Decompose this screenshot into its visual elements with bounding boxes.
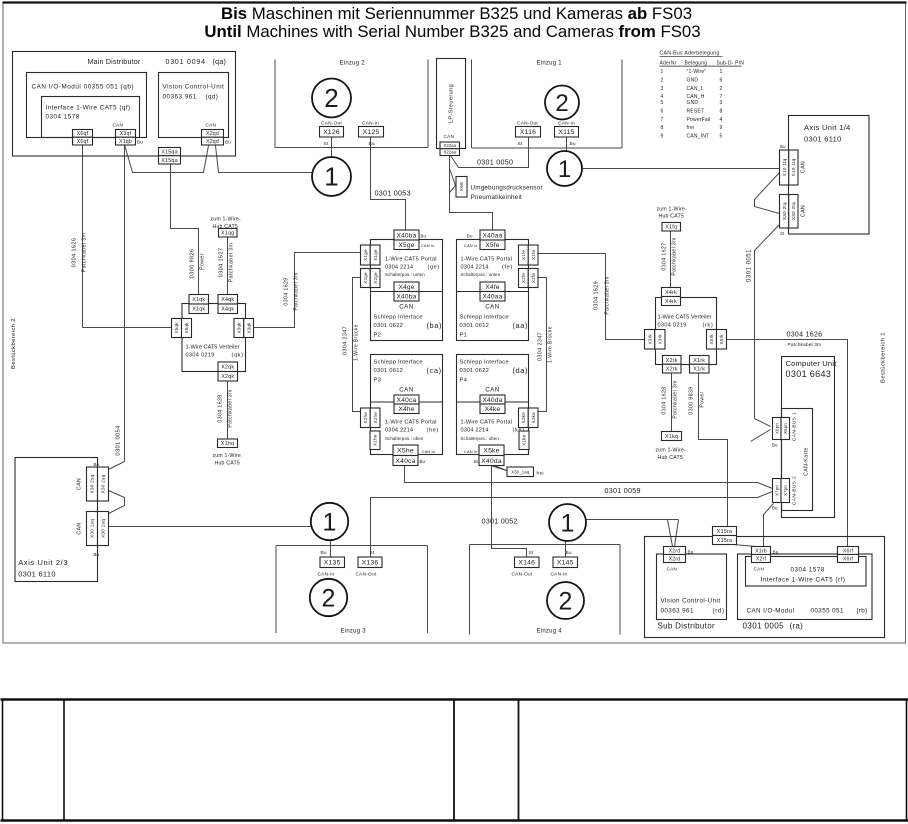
- svg-text:1: 1: [323, 508, 337, 536]
- svg-text:Bu: Bu: [321, 550, 327, 556]
- svg-text:0304 1628: 0304 1628: [662, 386, 668, 414]
- svg-text:00363 961: 00363 961: [163, 94, 197, 101]
- svg-text:1: 1: [561, 509, 575, 537]
- svg-text:Axis Unit 1/4: Axis Unit 1/4: [804, 123, 851, 132]
- svg-text:X2qd: X2qd: [206, 131, 219, 137]
- svg-text:X40da: X40da: [482, 397, 502, 404]
- svg-text:GND: GND: [687, 100, 699, 106]
- svg-text:0304 1627: 0304 1627: [219, 248, 225, 278]
- svg-text:0304 1627: 0304 1627: [662, 242, 668, 270]
- svg-text:0304 1578: 0304 1578: [46, 114, 80, 121]
- svg-text:Bu: Bu: [94, 552, 100, 557]
- svg-text:zum 1-Wire-: zum 1-Wire-: [211, 217, 242, 223]
- svg-text:X125: X125: [363, 129, 380, 136]
- svg-text:St: St: [518, 141, 523, 147]
- svg-text:Einzug 4: Einzug 4: [537, 629, 563, 635]
- svg-text:0304 1629: 0304 1629: [284, 277, 290, 305]
- svg-text:CAN In: CAN In: [464, 243, 478, 248]
- svg-text:Vision Control-Unit: Vision Control-Unit: [163, 84, 225, 91]
- svg-text:Bu: Bu: [137, 140, 143, 145]
- svg-text:P2: P2: [374, 333, 382, 339]
- svg-text:1: 1: [324, 162, 338, 192]
- svg-text:Interface 1-Wire CAT5 (qf): Interface 1-Wire CAT5 (qf): [46, 105, 131, 112]
- svg-text:frei: frei: [537, 471, 544, 476]
- svg-text:X2qk: X2qk: [221, 365, 234, 371]
- svg-text:Schalterpos.: unten: Schalterpos.: unten: [385, 272, 425, 277]
- svg-text:X1ge: X1ge: [373, 249, 378, 261]
- svg-text:X1qk: X1qk: [192, 297, 205, 303]
- svg-text:X126: X126: [323, 129, 340, 136]
- svg-text:CAN I/O-Modul 00355 051 (qb): CAN I/O-Modul 00355 051 (qb): [32, 84, 135, 91]
- svg-text:X4qk: X4qk: [221, 307, 234, 313]
- svg-text:1: 1: [720, 69, 723, 75]
- svg-text:X40ca: X40ca: [397, 397, 417, 404]
- svg-text:Schlepp Interface: Schlepp Interface: [374, 360, 423, 366]
- svg-text:CAN: CAN: [206, 123, 217, 128]
- svg-text:(ge): (ge): [428, 265, 440, 271]
- svg-text:X22aa: X22aa: [443, 150, 456, 155]
- svg-text:Patchkabel 3m: Patchkabel 3m: [673, 380, 679, 418]
- svg-text:1-Wire CAT5 Verteiler: 1-Wire CAT5 Verteiler: [186, 345, 240, 351]
- svg-text:X40ba: X40ba: [396, 294, 416, 301]
- svg-text:Schalterpos.: unten: Schalterpos.: unten: [461, 272, 501, 277]
- svg-text:X7pn: X7pn: [783, 485, 788, 496]
- svg-text:CAN: CAN: [399, 304, 414, 311]
- svg-text:X2he: X2he: [373, 412, 378, 424]
- svg-text:(qa): (qa): [213, 59, 227, 66]
- svg-text:0304 2214: 0304 2214: [385, 428, 413, 434]
- svg-text:X2ke: X2ke: [531, 412, 536, 424]
- svg-text:P4: P4: [460, 378, 468, 384]
- svg-text:X1ke: X1ke: [522, 434, 527, 446]
- svg-text:X1qb: X1qb: [119, 139, 132, 145]
- svg-text:Schalterpos.: oben: Schalterpos.: oben: [385, 436, 424, 441]
- svg-text:CAN I/O-Modul: CAN I/O-Modul: [747, 608, 795, 615]
- svg-text:7: 7: [661, 117, 664, 123]
- svg-text:X30 1sq: X30 1sq: [101, 519, 107, 538]
- svg-text:X1fq: X1fq: [665, 225, 677, 231]
- svg-text:X5ge: X5ge: [398, 242, 414, 249]
- svg-text:6: 6: [661, 109, 664, 115]
- svg-text:CAN-Out: CAN-Out: [512, 572, 533, 578]
- svg-text:CAN-Out: CAN-Out: [356, 572, 377, 578]
- svg-text:X3qk: X3qk: [237, 322, 242, 334]
- svg-text:0304 0219: 0304 0219: [658, 323, 687, 329]
- svg-text:CAN-In: CAN-In: [558, 121, 575, 127]
- svg-text:Einzug 2: Einzug 2: [340, 61, 366, 67]
- svg-text:6: 6: [720, 78, 723, 84]
- svg-text:Bu: Bu: [225, 140, 231, 145]
- svg-text:CAN-Out: CAN-Out: [321, 121, 342, 127]
- svg-text:2: 2: [324, 83, 338, 113]
- svg-text:X135: X135: [324, 560, 341, 567]
- svg-text:X116: X116: [520, 129, 536, 136]
- svg-text:AderNr: AderNr: [660, 61, 677, 67]
- svg-text:X136: X136: [362, 560, 379, 567]
- svg-text:0301 0054: 0301 0054: [116, 425, 122, 456]
- svg-text:Sub-D- PIN: Sub-D- PIN: [717, 61, 745, 67]
- svg-text:2: 2: [322, 584, 336, 612]
- svg-text:Bu: Bu: [474, 459, 480, 464]
- svg-text:0301 0059: 0301 0059: [605, 486, 641, 495]
- svg-text:Interface 1-Wire CAT5 (rf): Interface 1-Wire CAT5 (rf): [761, 577, 846, 584]
- svg-text:X4rk: X4rk: [665, 290, 677, 296]
- svg-text:Patchkabel 3m: Patchkabel 3m: [228, 389, 234, 427]
- svg-text:CAN: CAN: [801, 205, 807, 217]
- svg-text:Vision Control-Unit: Vision Control-Unit: [661, 598, 721, 605]
- svg-text:1: 1: [558, 156, 571, 183]
- svg-text:X30 2sq: X30 2sq: [101, 474, 107, 493]
- svg-text:2: 2: [559, 587, 573, 615]
- svg-text:X15qa: X15qa: [161, 158, 178, 164]
- svg-text:9: 9: [720, 125, 723, 131]
- svg-text:Patchkabel 3m: Patchkabel 3m: [229, 243, 235, 283]
- svg-text:CAN: CAN: [77, 478, 83, 490]
- svg-text:Bu: Bu: [94, 462, 100, 467]
- svg-text:X3rk: X3rk: [658, 334, 663, 345]
- svg-text:X3qf: X3qf: [120, 131, 132, 137]
- svg-text:X2qk: X2qk: [221, 374, 234, 380]
- svg-text:X2ke: X2ke: [521, 412, 526, 424]
- svg-text:4: 4: [720, 117, 723, 123]
- svg-text:X146: X146: [518, 560, 535, 567]
- svg-text:CAN In: CAN In: [464, 449, 478, 454]
- svg-text:X5qk: X5qk: [174, 322, 179, 334]
- svg-text:Until Machines with Serial Num: Until Machines with Serial Number B325 a…: [204, 22, 700, 41]
- svg-text:X4fe: X4fe: [485, 284, 499, 291]
- svg-text:St: St: [780, 231, 785, 236]
- svg-text:CAN-BUS 2: CAN-BUS 2: [792, 476, 798, 505]
- svg-text:Patchkabel 3m: Patchkabel 3m: [605, 276, 611, 314]
- svg-text:X10 1tq: X10 1tq: [791, 158, 797, 176]
- svg-text:CAN-In: CAN-In: [551, 572, 568, 578]
- svg-text:CAN-Karte: CAN-Karte: [804, 447, 810, 476]
- svg-text:Hub CAT5: Hub CAT5: [659, 214, 684, 220]
- svg-text:PowerFail: PowerFail: [687, 117, 711, 123]
- svg-text:Computer Unit: Computer Unit: [786, 359, 838, 368]
- svg-text:Bu: Bu: [780, 144, 786, 149]
- svg-text:0304 2347: 0304 2347: [538, 332, 544, 361]
- svg-text:X6qf: X6qf: [77, 131, 89, 137]
- svg-text:0301 6110: 0301 6110: [804, 135, 842, 144]
- svg-text:X1fe: X1fe: [521, 250, 526, 260]
- svg-text:Bu: Bu: [467, 234, 473, 239]
- svg-text:Bu: Bu: [773, 550, 779, 555]
- svg-text:X1ge: X1ge: [363, 249, 368, 261]
- svg-text:0301 0052: 0301 0052: [482, 517, 518, 526]
- svg-text:X2rk: X2rk: [666, 367, 678, 373]
- svg-text:zum 1-Wire-: zum 1-Wire-: [656, 448, 687, 454]
- svg-text:X1qk: X1qk: [192, 307, 205, 313]
- svg-text:CAN-BUS 1: CAN-BUS 1: [792, 412, 798, 441]
- svg-text:CAN_L: CAN_L: [687, 86, 704, 92]
- svg-text:CAN: CAN: [754, 567, 765, 572]
- svg-text:0301 0053: 0301 0053: [375, 189, 411, 198]
- svg-text:Hub CAT5: Hub CAT5: [215, 461, 240, 467]
- svg-text:(qd): (qd): [206, 94, 219, 101]
- svg-text:Einzug 1: Einzug 1: [537, 61, 563, 67]
- svg-text:X2rf: X2rf: [756, 556, 767, 562]
- svg-text:X6rf: X6rf: [843, 556, 854, 562]
- svg-text:(qk): (qk): [232, 353, 244, 359]
- svg-text:Einzug 3: Einzug 3: [341, 629, 367, 635]
- svg-text:(aa): (aa): [513, 321, 529, 330]
- svg-text:Belegung: Belegung: [685, 61, 708, 67]
- svg-text:Patchkabel 3m: Patchkabel 3m: [294, 272, 300, 310]
- svg-text:P1: P1: [460, 333, 468, 339]
- svg-text:0301 0622: 0301 0622: [374, 323, 404, 329]
- svg-text:GND: GND: [687, 78, 699, 84]
- svg-text:0301 6643: 0301 6643: [786, 369, 832, 379]
- svg-text:Bu: Bu: [772, 506, 778, 511]
- svg-text:Power: Power: [700, 391, 706, 407]
- svg-text:0304 2214: 0304 2214: [461, 428, 489, 434]
- svg-text:X6qf: X6qf: [77, 139, 89, 145]
- svg-text:X40aa: X40aa: [482, 232, 502, 239]
- svg-text:X115: X115: [558, 129, 574, 136]
- svg-text:Patchkabel 3m: Patchkabel 3m: [788, 342, 822, 348]
- svg-text:1-Wire CAT5 Verteiler: 1-Wire CAT5 Verteiler: [658, 315, 712, 321]
- svg-text:X4ge: X4ge: [398, 284, 414, 291]
- svg-text:Hub CAT5: Hub CAT5: [658, 455, 683, 461]
- svg-text:X68: X68: [459, 182, 465, 191]
- svg-text:X6pn: X6pn: [783, 423, 788, 434]
- svg-text:X1rb: X1rb: [755, 548, 767, 554]
- svg-text:0301 0612: 0301 0612: [460, 323, 490, 329]
- svg-text:2: 2: [661, 78, 664, 84]
- svg-text:1-Wire CAT5 Portal: 1-Wire CAT5 Portal: [461, 257, 513, 263]
- svg-text:X2qd: X2qd: [206, 139, 219, 145]
- svg-text:0300 9826: 0300 9826: [190, 249, 196, 279]
- svg-text:0304 1628: 0304 1628: [218, 394, 224, 422]
- svg-text:Bu: Bu: [570, 141, 576, 147]
- svg-text:0304 2347: 0304 2347: [343, 326, 349, 355]
- svg-text:P3: P3: [374, 378, 382, 384]
- svg-text:X15ra: X15ra: [717, 529, 732, 535]
- svg-text:X4qk: X4qk: [221, 297, 234, 303]
- svg-text:LP-Steuerung: LP-Steuerung: [449, 84, 455, 123]
- svg-text:CAN-In: CAN-In: [362, 121, 379, 127]
- svg-text:X145: X145: [557, 560, 574, 567]
- svg-text:3: 3: [720, 100, 723, 106]
- svg-text:X2fe: X2fe: [531, 273, 536, 283]
- svg-text:CAN In: CAN In: [421, 243, 435, 248]
- svg-text:X1fe: X1fe: [531, 250, 536, 260]
- svg-text:St: St: [370, 550, 375, 556]
- svg-text:Patchkabel 3m: Patchkabel 3m: [82, 233, 88, 273]
- svg-text:Bu: Bu: [421, 234, 427, 239]
- svg-text:X5rk: X5rk: [709, 334, 714, 345]
- svg-text:CAN-In: CAN-In: [318, 572, 335, 578]
- svg-text:0304 1626: 0304 1626: [72, 238, 78, 268]
- svg-text:X30 2tq: X30 2tq: [791, 202, 797, 220]
- svg-text:0301 0051: 0301 0051: [747, 249, 753, 282]
- svg-text:2: 2: [720, 86, 723, 92]
- svg-text:CAN: CAN: [113, 123, 124, 128]
- svg-text:5: 5: [661, 100, 664, 106]
- svg-text:Patchkabel 3m: Patchkabel 3m: [672, 237, 678, 275]
- svg-text:(ba): (ba): [427, 321, 443, 330]
- svg-text:X2rd: X2rd: [669, 548, 681, 554]
- svg-text:X2ge: X2ge: [373, 272, 378, 284]
- svg-text:2: 2: [555, 90, 568, 117]
- svg-text:X40ba: X40ba: [396, 232, 416, 239]
- svg-text:X10 1tq: X10 1tq: [782, 158, 788, 176]
- svg-text:CAN In: CAN In: [422, 449, 436, 454]
- svg-text:1-Wire Brücke: 1-Wire Brücke: [548, 326, 554, 363]
- svg-text:X1he: X1he: [373, 434, 378, 446]
- svg-text:(ra): (ra): [790, 622, 804, 631]
- svg-text:X5qk: X5qk: [184, 322, 189, 334]
- svg-text:St: St: [324, 141, 329, 147]
- svg-text:X40aa: X40aa: [482, 294, 502, 301]
- svg-text:0301 0612: 0301 0612: [374, 368, 404, 374]
- svg-text:(da): (da): [513, 366, 529, 375]
- svg-text:1-Wire CAT5 Portal: 1-Wire CAT5 Portal: [385, 420, 437, 426]
- svg-text:Schlepp Interface: Schlepp Interface: [460, 315, 509, 321]
- svg-text:X2fe: X2fe: [521, 273, 526, 283]
- svg-text:00355 051: 00355 051: [811, 608, 844, 615]
- svg-text:CAN: CAN: [485, 304, 500, 311]
- svg-text:Axis Unit 2/3: Axis Unit 2/3: [18, 558, 68, 567]
- svg-text:X30 2tq: X30 2tq: [782, 202, 788, 220]
- svg-text:X2ge: X2ge: [363, 272, 368, 284]
- svg-text:X1qg: X1qg: [221, 231, 234, 237]
- svg-text:0300 9839: 0300 9839: [689, 386, 695, 414]
- svg-text:(ca): (ca): [427, 366, 442, 375]
- svg-text:X3qk: X3qk: [246, 322, 251, 334]
- svg-text:0301 0094: 0301 0094: [166, 59, 206, 66]
- svg-text:X40ca: X40ca: [395, 458, 415, 465]
- svg-text:Bis Maschinen mit Seriennummer: Bis Maschinen mit Seriennummer B325 und …: [221, 4, 692, 23]
- svg-text:X2rk: X2rk: [666, 358, 678, 364]
- svg-text:X15qa: X15qa: [161, 150, 178, 156]
- svg-text:CAN: CAN: [399, 387, 414, 394]
- svg-text:X3rk: X3rk: [647, 334, 652, 345]
- svg-text:Umgebungsdrucksensor: Umgebungsdrucksensor: [471, 185, 543, 192]
- svg-text:CAN-Bus Aderbelegung: CAN-Bus Aderbelegung: [660, 51, 720, 57]
- svg-text:0304 1626: 0304 1626: [787, 332, 823, 339]
- svg-text:X7pn: X7pn: [774, 485, 779, 496]
- svg-text:X5he: X5he: [397, 448, 414, 455]
- svg-text:8: 8: [661, 125, 664, 131]
- svg-text:Schlepp Interface: Schlepp Interface: [374, 315, 423, 321]
- svg-text:Schlepp Interface: Schlepp Interface: [460, 360, 509, 366]
- svg-text:X15ra: X15ra: [717, 538, 732, 544]
- svg-text:Bestückbereich 1: Bestückbereich 1: [881, 332, 887, 383]
- svg-text:Bu: Bu: [369, 141, 375, 147]
- svg-text:(rd): (rd): [713, 608, 725, 615]
- svg-text:(he): (he): [427, 428, 439, 434]
- svg-text:X4ke: X4ke: [485, 406, 501, 413]
- svg-text:frei: frei: [687, 125, 695, 131]
- svg-text:X30_1aq: X30_1aq: [511, 469, 530, 474]
- svg-text:X6rf: X6rf: [843, 548, 854, 554]
- svg-text:5: 5: [720, 134, 723, 140]
- svg-text:X4rk: X4rk: [665, 299, 677, 305]
- svg-text:CAN: CAN: [667, 567, 678, 572]
- svg-text:CAN_INT: CAN_INT: [687, 134, 710, 140]
- svg-text:Bu: Bu: [566, 550, 572, 556]
- svg-text:0304 1629: 0304 1629: [594, 281, 600, 310]
- svg-text:zum 1-Wire-: zum 1-Wire-: [657, 207, 688, 213]
- svg-text:3: 3: [661, 86, 664, 92]
- svg-text:X2rd: X2rd: [669, 556, 681, 562]
- svg-text:0304 0219: 0304 0219: [186, 353, 215, 359]
- svg-text:"1-Wire": "1-Wire": [687, 69, 707, 75]
- svg-text:9: 9: [661, 134, 664, 140]
- svg-text:CAN-Out: CAN-Out: [517, 121, 538, 127]
- svg-text:Bu: Bu: [688, 550, 694, 555]
- svg-text:0304 2214: 0304 2214: [385, 265, 413, 271]
- svg-text:1-Wire Brücke: 1-Wire Brücke: [354, 324, 360, 361]
- svg-text:0301 0622: 0301 0622: [460, 368, 490, 374]
- svg-text:1: 1: [661, 69, 664, 75]
- svg-text:00363 961: 00363 961: [661, 608, 694, 615]
- svg-text:0304 1578: 0304 1578: [791, 567, 825, 574]
- svg-text:0301 0005: 0301 0005: [743, 622, 785, 631]
- svg-text:X30 1sq: X30 1sq: [90, 519, 96, 538]
- svg-text:zum 1-Wire: zum 1-Wire: [213, 453, 242, 459]
- svg-text:X22aa: X22aa: [443, 143, 456, 148]
- svg-text:Power: Power: [200, 253, 206, 270]
- svg-text:(fe): (fe): [502, 265, 513, 271]
- svg-text:X1hq: X1hq: [221, 441, 234, 447]
- svg-text:0301 6110: 0301 6110: [18, 570, 56, 579]
- svg-text:0304 2214: 0304 2214: [461, 265, 489, 271]
- svg-text:8: 8: [720, 109, 723, 115]
- svg-text:CAN: CAN: [77, 522, 83, 534]
- svg-text:X5fe: X5fe: [485, 242, 499, 249]
- svg-text:0301 0050: 0301 0050: [477, 158, 513, 167]
- svg-text:Bu: Bu: [420, 459, 426, 464]
- svg-text:X5ke: X5ke: [483, 448, 499, 455]
- svg-text:X2he: X2he: [363, 412, 368, 424]
- svg-text:Main Distributor: Main Distributor: [88, 59, 141, 66]
- svg-text:1-Wire CAT5 Portal: 1-Wire CAT5 Portal: [385, 257, 437, 263]
- svg-text:X5rk: X5rk: [719, 334, 724, 345]
- svg-text:Schalterpos.: oben: Schalterpos.: oben: [461, 436, 500, 441]
- svg-text:X1kq: X1kq: [665, 434, 678, 440]
- svg-text:X1rk: X1rk: [693, 367, 705, 373]
- svg-text:1-Wire CAT5 Portal: 1-Wire CAT5 Portal: [461, 420, 513, 426]
- svg-text:(rb): (rb): [857, 608, 868, 615]
- svg-text:X1rk: X1rk: [693, 358, 705, 364]
- svg-text:X30 2sq: X30 2sq: [90, 474, 96, 493]
- svg-text:CAN: CAN: [801, 161, 807, 173]
- svg-text:Bu: Bu: [772, 443, 778, 448]
- svg-text:(rk): (rk): [703, 323, 714, 329]
- svg-text:Pneumatikeinheit: Pneumatikeinheit: [471, 194, 523, 201]
- svg-text:X4he: X4he: [398, 406, 414, 413]
- svg-text:Bestückbereich 2: Bestückbereich 2: [11, 318, 17, 369]
- svg-text:RESET: RESET: [687, 109, 705, 115]
- svg-text:X6pn: X6pn: [774, 423, 779, 434]
- svg-text:CAN: CAN: [444, 134, 455, 140]
- svg-text:Sub Distributor: Sub Distributor: [658, 622, 715, 631]
- svg-text:CAN: CAN: [485, 387, 500, 394]
- svg-text:X40da: X40da: [481, 458, 502, 465]
- svg-text:St: St: [529, 550, 534, 556]
